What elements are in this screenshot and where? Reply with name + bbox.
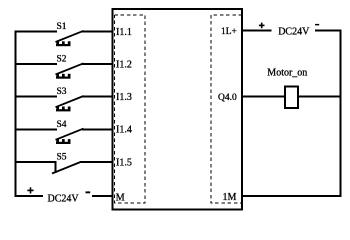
switch S3	[56, 96, 84, 111]
wire coil to right bus	[298, 96, 341, 98]
svg-text:1L+: 1L+	[221, 27, 237, 37]
svg-text:S2: S2	[57, 55, 67, 65]
svg-text:1M: 1M	[223, 192, 237, 203]
wire Q4.0 to coil	[242, 96, 285, 98]
minus sign upper supply	[315, 24, 319, 26]
svg-text:S4: S4	[57, 120, 67, 130]
wire DC24V minus to M	[92, 195, 113, 197]
wire bus to S1	[15, 31, 58, 33]
svg-text:I1.1: I1.1	[116, 27, 132, 38]
svg-text:DC24V: DC24V	[48, 194, 80, 205]
PLC module box	[112, 9, 242, 209]
switch S1	[56, 31, 84, 46]
switch S5	[52, 162, 81, 174]
svg-text:S1: S1	[57, 22, 67, 32]
svg-text:I1.5: I1.5	[116, 157, 132, 168]
svg-text:Q4.0: Q4.0	[218, 93, 237, 103]
wire DC24V minus to right bus	[315, 30, 342, 32]
minus sign lower supply	[86, 191, 91, 193]
left DC24V bus wire	[15, 31, 17, 197]
plus sign lower supply	[27, 187, 33, 193]
switch S2	[56, 63, 84, 78]
switch S4	[56, 129, 84, 144]
svg-text:Motor_on: Motor_on	[267, 68, 307, 79]
wire 1L+ to DC24V plus	[242, 30, 272, 32]
svg-text:M: M	[116, 193, 125, 204]
wire bus to S2	[15, 63, 58, 65]
svg-text:I1.2: I1.2	[116, 59, 132, 70]
wire bus to S5	[15, 161, 57, 163]
wire S5 to I1.5	[80, 161, 113, 163]
coil Motor_on	[285, 86, 298, 108]
wire bus to S3	[15, 96, 58, 98]
svg-text:I1.4: I1.4	[116, 125, 132, 136]
wire bus to S4	[15, 128, 58, 130]
right bus wire	[340, 30, 342, 198]
svg-text:I1.3: I1.3	[116, 92, 132, 103]
output section dashed box	[211, 15, 242, 203]
wire S2 to I1.2	[82, 63, 113, 65]
wire S4 to I1.4	[82, 128, 113, 130]
svg-text:S3: S3	[57, 87, 67, 97]
wire S3 to I1.3	[82, 96, 113, 98]
svg-text:S5: S5	[57, 153, 67, 163]
svg-text:DC24V: DC24V	[278, 27, 310, 38]
wire S1 to I1.1	[82, 31, 113, 33]
input section dashed box	[115, 15, 146, 203]
wire 1M to right bus	[242, 195, 342, 197]
wire bus to DC24V plus	[15, 195, 44, 197]
plus sign upper supply	[259, 23, 265, 29]
